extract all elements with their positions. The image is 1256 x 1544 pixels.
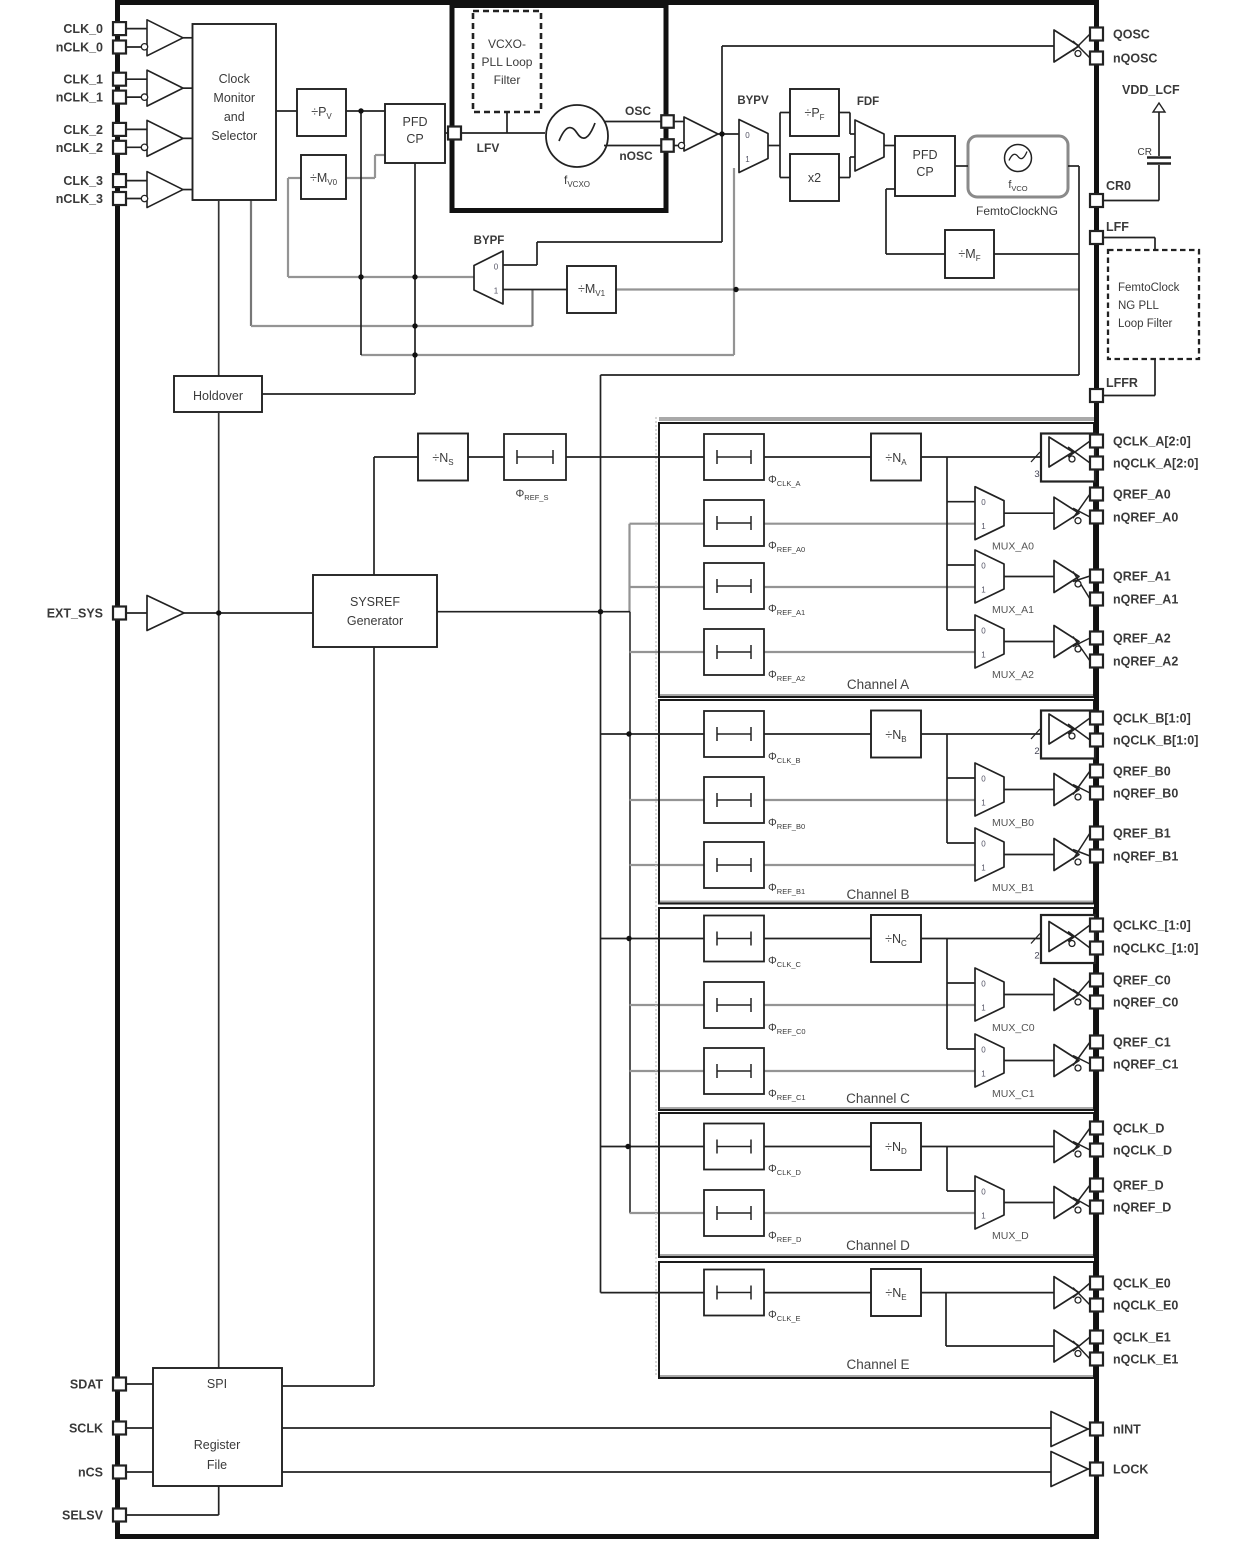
svg-text:0: 0 — [981, 627, 986, 636]
svg-text:SYSREF: SYSREF — [350, 595, 400, 609]
svg-text:1: 1 — [981, 522, 986, 531]
svg-text:QREF_A0: QREF_A0 — [1113, 488, 1171, 502]
svg-text:CLK_0: CLK_0 — [63, 22, 103, 36]
svg-text:1: 1 — [494, 287, 499, 296]
svg-text:nQCLK_E0: nQCLK_E0 — [1113, 1299, 1178, 1313]
svg-text:QREF_B0: QREF_B0 — [1113, 765, 1171, 779]
svg-text:FemtoClock: FemtoClock — [1118, 282, 1180, 294]
svg-text:MUX_C1: MUX_C1 — [992, 1088, 1035, 1100]
svg-text:CLK_2: CLK_2 — [63, 123, 103, 137]
svg-text:nOSC: nOSC — [619, 149, 653, 163]
svg-text:LOCK: LOCK — [1113, 1463, 1148, 1477]
svg-text:Clock: Clock — [219, 72, 251, 86]
svg-text:nCLK_0: nCLK_0 — [56, 41, 103, 55]
svg-text:nQREF_C0: nQREF_C0 — [1113, 996, 1178, 1010]
svg-text:nCS: nCS — [78, 1466, 103, 1480]
svg-text:0: 0 — [981, 562, 986, 571]
svg-text:Channel E: Channel E — [846, 1357, 909, 1372]
svg-text:nQREF_A0: nQREF_A0 — [1113, 511, 1178, 525]
svg-text:Channel B: Channel B — [846, 887, 909, 902]
svg-text:CP: CP — [916, 165, 933, 179]
svg-text:0: 0 — [981, 1188, 986, 1197]
svg-text:2: 2 — [1034, 951, 1039, 962]
svg-text:0: 0 — [981, 1046, 986, 1055]
svg-text:LFF: LFF — [1106, 220, 1129, 234]
svg-text:QOSC: QOSC — [1113, 28, 1150, 42]
svg-text:CP: CP — [406, 132, 423, 146]
svg-text:nQCLK_D: nQCLK_D — [1113, 1144, 1172, 1158]
svg-text:NG PLL: NG PLL — [1118, 300, 1160, 312]
svg-text:OSC: OSC — [625, 104, 651, 118]
svg-text:FemtoClockNG: FemtoClockNG — [976, 204, 1058, 218]
svg-text:nCLK_3: nCLK_3 — [56, 192, 103, 206]
svg-text:FDF: FDF — [857, 96, 879, 108]
svg-text:nQREF_D: nQREF_D — [1113, 1201, 1171, 1215]
svg-text:1: 1 — [981, 651, 986, 660]
svg-text:Register: Register — [194, 1438, 241, 1452]
svg-text:File: File — [207, 1458, 227, 1472]
svg-text:0: 0 — [981, 980, 986, 989]
svg-text:EXT_SYS: EXT_SYS — [47, 607, 103, 621]
svg-text:Channel D: Channel D — [846, 1238, 910, 1253]
svg-text:nQCLK_E1: nQCLK_E1 — [1113, 1353, 1178, 1367]
svg-text:nINT: nINT — [1113, 1423, 1141, 1437]
svg-text:LFFR: LFFR — [1106, 376, 1138, 390]
svg-text:0: 0 — [981, 498, 986, 507]
svg-text:Loop Filter: Loop Filter — [1118, 318, 1173, 330]
svg-text:Holdover: Holdover — [193, 389, 243, 403]
svg-text:MUX_A1: MUX_A1 — [992, 604, 1034, 616]
svg-text:QCLK_A[2:0]: QCLK_A[2:0] — [1113, 435, 1191, 449]
svg-text:BYPV: BYPV — [737, 95, 769, 107]
svg-text:x2: x2 — [808, 171, 821, 185]
svg-text:VCXO-: VCXO- — [488, 37, 526, 51]
svg-text:QCLK_B[1:0]: QCLK_B[1:0] — [1113, 712, 1191, 726]
svg-text:QREF_C0: QREF_C0 — [1113, 974, 1171, 988]
svg-text:Generator: Generator — [347, 614, 403, 628]
svg-text:1: 1 — [981, 1004, 986, 1013]
svg-text:nQREF_B1: nQREF_B1 — [1113, 850, 1178, 864]
svg-text:QCLKC_[1:0]: QCLKC_[1:0] — [1113, 919, 1191, 933]
svg-text:PFD: PFD — [403, 115, 428, 129]
svg-text:Monitor: Monitor — [213, 91, 255, 105]
svg-text:1: 1 — [981, 586, 986, 595]
svg-text:QCLK_D: QCLK_D — [1113, 1122, 1164, 1136]
svg-text:0: 0 — [981, 840, 986, 849]
svg-text:1: 1 — [981, 799, 986, 808]
svg-text:nQCLKC_[1:0]: nQCLKC_[1:0] — [1113, 942, 1198, 956]
svg-text:nCLK_1: nCLK_1 — [56, 91, 103, 105]
svg-text:QREF_C1: QREF_C1 — [1113, 1036, 1171, 1050]
svg-text:PFD: PFD — [913, 148, 938, 162]
svg-text:CLK_3: CLK_3 — [63, 174, 103, 188]
svg-text:Channel C: Channel C — [846, 1091, 910, 1106]
svg-text:QCLK_E0: QCLK_E0 — [1113, 1277, 1171, 1291]
svg-text:SPI: SPI — [207, 1377, 227, 1391]
svg-text:nQREF_A2: nQREF_A2 — [1113, 655, 1178, 669]
svg-text:0: 0 — [494, 263, 499, 272]
svg-text:nQREF_C1: nQREF_C1 — [1113, 1058, 1178, 1072]
svg-text:Filter: Filter — [494, 73, 521, 87]
svg-text:QREF_D: QREF_D — [1113, 1179, 1164, 1193]
svg-text:PLL Loop: PLL Loop — [482, 55, 533, 69]
svg-text:2: 2 — [1034, 746, 1039, 757]
svg-text:nQOSC: nQOSC — [1113, 52, 1157, 66]
svg-text:MUX_B0: MUX_B0 — [992, 817, 1034, 829]
svg-text:1: 1 — [745, 155, 750, 164]
svg-text:MUX_D: MUX_D — [992, 1230, 1029, 1242]
svg-text:MUX_A2: MUX_A2 — [992, 669, 1034, 681]
svg-text:SELSV: SELSV — [62, 1509, 104, 1523]
svg-text:CLK_1: CLK_1 — [63, 73, 103, 87]
svg-text:0: 0 — [981, 775, 986, 784]
svg-text:nQCLK_B[1:0]: nQCLK_B[1:0] — [1113, 734, 1198, 748]
svg-text:and: and — [224, 110, 245, 124]
svg-text:MUX_A0: MUX_A0 — [992, 541, 1034, 553]
svg-text:CR0: CR0 — [1106, 179, 1131, 193]
svg-text:QREF_A2: QREF_A2 — [1113, 632, 1171, 646]
svg-text:1: 1 — [981, 1070, 986, 1079]
svg-text:VDD_LCF: VDD_LCF — [1122, 83, 1180, 97]
svg-text:1: 1 — [981, 1212, 986, 1221]
svg-text:BYPF: BYPF — [474, 235, 505, 247]
svg-text:Channel A: Channel A — [847, 677, 909, 692]
svg-text:QREF_A1: QREF_A1 — [1113, 570, 1171, 584]
svg-text:3: 3 — [1034, 469, 1039, 480]
svg-text:nCLK_2: nCLK_2 — [56, 141, 103, 155]
svg-text:nQREF_A1: nQREF_A1 — [1113, 593, 1178, 607]
svg-text:MUX_C0: MUX_C0 — [992, 1022, 1035, 1034]
svg-text:SCLK: SCLK — [69, 1422, 103, 1436]
svg-text:0: 0 — [745, 131, 750, 140]
svg-text:MUX_B1: MUX_B1 — [992, 882, 1034, 894]
svg-text:LFV: LFV — [477, 141, 500, 155]
svg-text:SDAT: SDAT — [70, 1378, 103, 1392]
svg-text:Selector: Selector — [211, 129, 257, 143]
svg-text:QCLK_E1: QCLK_E1 — [1113, 1331, 1171, 1345]
svg-text:QREF_B1: QREF_B1 — [1113, 827, 1171, 841]
svg-text:nQREF_B0: nQREF_B0 — [1113, 787, 1178, 801]
svg-text:nQCLK_A[2:0]: nQCLK_A[2:0] — [1113, 457, 1198, 471]
svg-text:1: 1 — [981, 864, 986, 873]
